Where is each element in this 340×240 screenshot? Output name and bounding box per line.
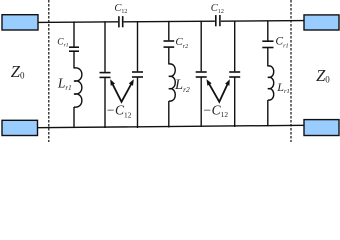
wire resonator-2 top (168, 21, 170, 40)
port feed line bottom-left (2, 120, 38, 135)
negative capacitor block 1: right capacitor plates (132, 72, 143, 77)
negative capacitor block 2: right capacitor plates (229, 72, 240, 77)
wire resonator-2 middle (168, 47, 170, 64)
wire top bus segment 2 (124, 20, 215, 23)
wire top bus segment 1 (38, 21, 119, 24)
wire resonator-1 top (73, 21, 75, 46)
reference plane dashed line left (48, 0, 50, 142)
negative capacitor block 2: left capacitor wire bottom (200, 77, 202, 127)
inductor Lr2 (169, 64, 175, 101)
negative capacitor block 1: left capacitor plates (100, 73, 111, 78)
arrow pair block 2 (pointing to -C12 capacitors) (207, 79, 230, 102)
negative capacitor block 1: left capacitor wire bottom (104, 77, 106, 128)
wire top bus segment 3 (221, 20, 305, 23)
port feed line top-left (2, 15, 38, 30)
negative capacitor block 1: right capacitor wire bottom (137, 77, 139, 128)
negative capacitor block 2: right capacitor wire bottom (234, 77, 236, 127)
negative capacitor block 1: right capacitor wire top (137, 21, 139, 71)
port feed line top-right (304, 15, 339, 30)
inductor Lr1 right (268, 66, 274, 100)
capacitor C12 right (series, in top bus) (216, 15, 220, 26)
wire resonator-1 bottom (73, 107, 75, 128)
wire resonator-3 middle (267, 48, 269, 67)
wire resonator-1 middle (73, 51, 75, 68)
arrow pair block 1 (pointing to -C12 capacitors) (110, 79, 134, 102)
capacitor Cr1 left (shunt) (69, 47, 79, 51)
negative capacitor block 1: left capacitor wire top (104, 21, 106, 72)
capacitor Cr2 (shunt) (164, 41, 175, 47)
reference plane dashed line right (290, 0, 292, 142)
wire resonator-3 bottom (267, 100, 269, 126)
inductor Lr1 left (74, 68, 82, 107)
capacitor C12 left (series, in top bus) (119, 16, 123, 27)
negative capacitor block 2: left capacitor wire top (200, 21, 202, 72)
wire bottom bus (38, 125, 305, 127)
negative capacitor block 2: left capacitor plates (196, 72, 207, 77)
negative capacitor block 2: right capacitor wire top (234, 21, 236, 72)
wire resonator-2 bottom (168, 101, 170, 128)
wire resonator-3 top (267, 20, 269, 40)
port feed line bottom-right (304, 120, 339, 136)
capacitor Cr1 right (shunt) (262, 41, 273, 47)
